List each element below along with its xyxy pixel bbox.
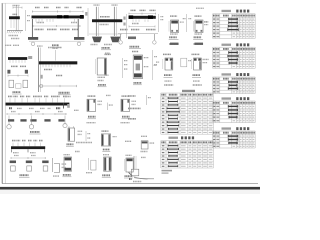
- beam B base circles: [31, 42, 35, 46]
- beam B lower dim: [33, 25, 80, 27]
- portal C texts: [100, 16, 110, 18]
- beam G bar: [39, 61, 77, 64]
- beam L bar: [11, 146, 45, 149]
- member table T5 row entries: [213, 135, 254, 147]
- beam D left dim: [126, 14, 128, 38]
- notes N: [128, 95, 136, 97]
- member table T3 grid: [213, 77, 256, 94]
- member table T4 beam sketch glyphs: [228, 105, 238, 118]
- section SA: [96, 54, 111, 86]
- member table T5 grid: [213, 131, 256, 148]
- beam G bottom dim: [39, 85, 77, 87]
- beam J dim texts: [11, 111, 16, 113]
- detail A top text: [13, 5, 20, 7]
- beam D dim texts: [120, 29, 128, 31]
- member table T1 beam sketch glyphs: [227, 18, 238, 31]
- sheet frame bottom border: [2, 183, 258, 185]
- note texts mid-bottom: [76, 142, 92, 144]
- detail A vertical dim: [25, 10, 27, 31]
- member table T3 title: [222, 73, 232, 75]
- beam D support stubs: [120, 34, 122, 40]
- member table T2 beam sketch glyphs: [227, 51, 238, 64]
- beam L supports: [10, 161, 16, 164]
- beam B ground line: [29, 40, 85, 42]
- beam J bar: [6, 103, 70, 106]
- member table T2 header text: [213, 48, 255, 50]
- P3 left dim: [85, 131, 87, 141]
- vertical dim E2: [186, 14, 188, 32]
- beam D label: [130, 46, 140, 48]
- beam B dim texts: [35, 28, 44, 30]
- beam G label: [59, 92, 70, 94]
- beam D ground line: [118, 33, 158, 35]
- member table T4 grid: [213, 101, 256, 123]
- member table T3 beam sketch glyphs: [228, 81, 238, 90]
- beam L texts: [13, 152, 19, 154]
- beam B mid texts: [37, 22, 45, 24]
- beam B dark blocks: [57, 15, 62, 18]
- hatch blobs under S1 S2: [170, 43, 179, 45]
- detail F wall squares: [9, 80, 14, 87]
- note under rebar table B: [162, 170, 173, 172]
- rebar table B title: [169, 137, 179, 139]
- P3 label: [103, 149, 110, 151]
- member table T1 header text: [213, 15, 255, 17]
- portal C column top texts: [94, 4, 100, 6]
- beam B label: [52, 44, 59, 46]
- rebar table B header text: [161, 141, 212, 143]
- beam D mid text: [132, 23, 139, 25]
- detail A dim line: [13, 7, 22, 9]
- beam B bar: [32, 16, 84, 19]
- beam J label: [30, 131, 40, 133]
- rebar table B rows with bar-shape glyphs: [162, 145, 213, 167]
- beam G top text: [37, 45, 43, 47]
- portal C left dim: [87, 8, 89, 36]
- detail A bottom note: [5, 44, 12, 46]
- rebar table A rows with bar-shape glyphs: [162, 97, 213, 133]
- member table T5 title: [222, 127, 232, 129]
- beam D mid footing: [128, 37, 136, 40]
- small note top: [196, 7, 204, 9]
- small section left of SD: [181, 58, 187, 67]
- beam J top ticks: [10, 98, 65, 102]
- small detail N3: [129, 156, 148, 182]
- beam L dim: [11, 157, 45, 159]
- portal C beam bar: [92, 19, 122, 22]
- beam D top texts: [131, 9, 137, 11]
- member table T1 grid: [213, 14, 256, 39]
- beam G texts: [44, 69, 52, 71]
- portal C bottom texts: [91, 44, 98, 46]
- beam D lower dim: [129, 25, 155, 27]
- beam J stub ticks: [9, 116, 65, 125]
- detail F bar: [8, 57, 27, 60]
- rebar table A header text: [161, 94, 212, 96]
- sheet frame top border: [2, 2, 256, 4]
- beam L label: [20, 174, 29, 176]
- member table T1 row entries: [213, 18, 254, 37]
- member table T5 header text: [213, 132, 255, 134]
- section SC: [163, 54, 173, 85]
- section S1: [169, 16, 184, 44]
- bracket detail M: [52, 158, 66, 176]
- dash near title block: [134, 178, 154, 179]
- note texts above detail F: [48, 47, 55, 49]
- SD right dim texts: [203, 58, 209, 60]
- section SB: [105, 52, 149, 85]
- beam J under-bar marks: [9, 107, 12, 109]
- member table T2 grid: [213, 47, 256, 68]
- beam J top texts: [8, 95, 12, 97]
- section P2: [121, 96, 137, 123]
- vertical dim E1: [158, 14, 160, 32]
- beam B columns: [31, 19, 33, 37]
- section P1: [87, 96, 103, 123]
- section P3: [101, 131, 116, 146]
- beam B top texts: [35, 7, 40, 9]
- beam B top dim: [32, 11, 84, 13]
- member table T2 title: [222, 44, 232, 46]
- portal C columns: [95, 7, 97, 36]
- beam G axis circle: [40, 84, 43, 87]
- detail A lower text: [9, 35, 19, 37]
- detail F texts: [11, 65, 18, 67]
- detail A column lines: [15, 5, 17, 31]
- texts right of beam J: [65, 96, 72, 98]
- member table T3 row entries: [213, 81, 254, 92]
- member table T3 header text: [213, 78, 255, 80]
- detail F ticks: [10, 60, 25, 63]
- portal C footing left: [92, 37, 102, 43]
- detail F side text: [28, 56, 32, 59]
- beam D bar: [129, 16, 156, 19]
- leader SF: [86, 158, 96, 173]
- member table T4 title: [222, 97, 232, 99]
- detail A ground line: [7, 29, 23, 31]
- small detail N2: [141, 136, 155, 151]
- member table T2 row entries: [213, 52, 254, 67]
- section S2: [193, 16, 208, 44]
- section SD: [191, 54, 201, 85]
- section SH: [124, 155, 133, 178]
- beam J dim line: [7, 113, 66, 115]
- section SE: [62, 155, 71, 177]
- beam G stirrups: [43, 65, 70, 68]
- bottom heavy band: [0, 187, 260, 190]
- beam G top tick + text: [53, 47, 59, 49]
- beam B footings: [28, 37, 38, 40]
- vertical dim right of SB: [152, 50, 154, 80]
- member table T5 beam sketch glyphs: [228, 135, 239, 144]
- detail A text: [13, 13, 18, 15]
- beam L top ticks: [13, 143, 41, 147]
- rebar table A title: [182, 90, 195, 92]
- beam D top dim: [129, 13, 157, 15]
- beam J supports: [8, 119, 14, 121]
- portal C footing right: [110, 37, 120, 43]
- detail F end brackets: [7, 70, 10, 74]
- section SG: [102, 155, 111, 178]
- detail F dim: [8, 75, 28, 77]
- rebar table A grid: [161, 93, 214, 134]
- detail F label: [13, 91, 21, 93]
- beam L top texts: [12, 140, 16, 142]
- beam J base circles: [7, 125, 11, 129]
- leader between P1 P2: [107, 103, 109, 110]
- beam D base circles: [119, 41, 123, 45]
- sheet frame left border: [1, 3, 3, 184]
- beam B stirrup ticks: [36, 19, 75, 22]
- beam L dim texts: [14, 155, 19, 157]
- detail A ground hatch: [7, 31, 21, 34]
- section K: [66, 110, 83, 146]
- member table T4 header text: [213, 102, 255, 104]
- member table T4 row entries: [213, 106, 254, 122]
- beam G left column: [38, 48, 40, 93]
- S2 right dim texts: [204, 21, 208, 23]
- member table T1 title: [222, 10, 232, 12]
- rebar table B grid: [161, 141, 214, 168]
- detail A lintel bar: [9, 16, 20, 19]
- beam L end stubs: [12, 149, 45, 152]
- beam D stirrups: [133, 19, 148, 21]
- portal C label: [102, 47, 111, 49]
- portal C base dim: [89, 33, 122, 35]
- beam L wall squares: [11, 166, 16, 171]
